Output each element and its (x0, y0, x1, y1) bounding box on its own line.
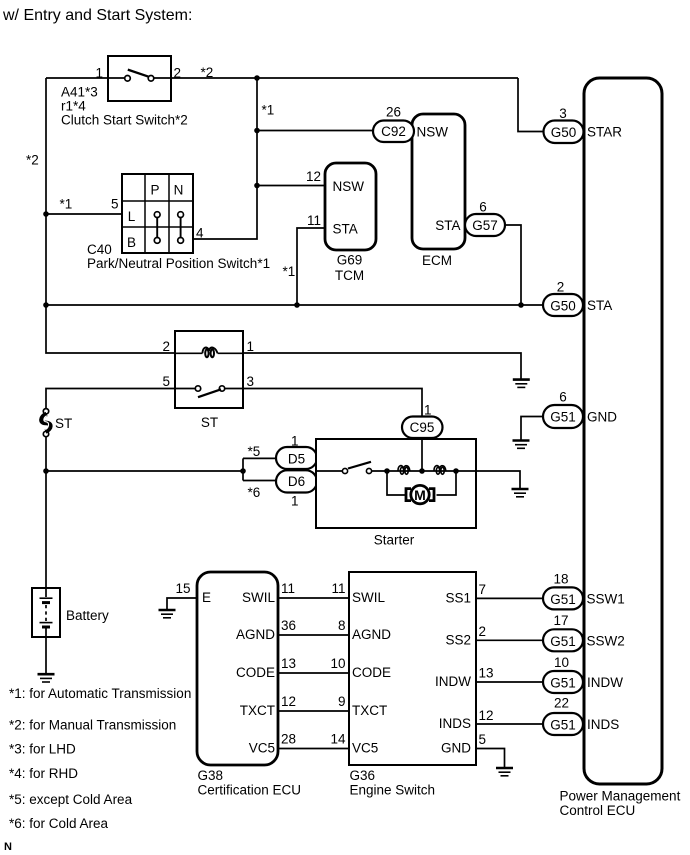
ground B (G51 GND) (513, 441, 530, 449)
ground F (battery) (38, 674, 55, 682)
wire: D5/D6 feed y471 (46, 470, 243, 472)
svg-text:STA: STA (587, 298, 612, 313)
svg-text:11: 11 (331, 581, 345, 596)
ECM box (412, 114, 465, 249)
wire: top bus y78 clutch switch to STAR drop (154, 77, 519, 79)
wire: G38-G36 row CODE (278, 672, 349, 674)
svg-text:Engine Switch: Engine Switch (350, 783, 436, 798)
svg-text:22: 22 (554, 696, 569, 711)
connector D5 oval (276, 447, 317, 469)
wire: relay pin3 to C95 (243, 389, 422, 418)
clutch switch lever (128, 70, 149, 77)
wire: STAR drop x518 (518, 78, 544, 132)
svg-text:C95: C95 (410, 420, 435, 435)
connector G50 STA oval (543, 294, 583, 316)
svg-text:INDS: INDS (587, 717, 619, 732)
svg-text:*5: *5 (248, 444, 261, 459)
wire: left vertical x46 down to relay coil pin2 (46, 78, 175, 353)
svg-text:15: 15 (175, 581, 190, 596)
junction dot (521,305) (518, 302, 524, 308)
svg-text:*6: *6 (248, 485, 261, 500)
wire: G51 GND row to ground B (521, 417, 543, 441)
motor left bracket (406, 489, 411, 501)
junction dot (243,471) (240, 468, 246, 474)
svg-text:L: L (128, 209, 136, 224)
wire: top bus y78 left of clutch switch (46, 77, 125, 79)
svg-text:26: 26 (386, 105, 401, 120)
svg-text:4: 4 (196, 226, 204, 241)
connector G57 oval (465, 214, 505, 236)
connector C95 oval (402, 417, 443, 439)
svg-text:Clutch Start Switch*2: Clutch Start Switch*2 (61, 113, 188, 128)
connector G51 SSW2 oval (543, 629, 583, 651)
svg-text:*1: *1 (60, 197, 73, 212)
svg-text:*6: for Cold Area: *6: for Cold Area (9, 816, 109, 831)
svg-text:AGND: AGND (236, 627, 275, 642)
junction dot (257,185) (254, 183, 260, 189)
svg-text:11: 11 (307, 213, 321, 228)
svg-text:13: 13 (281, 656, 296, 671)
wire: branch y214 to C40 pin5 (46, 213, 122, 215)
svg-text:3: 3 (559, 106, 567, 121)
wire: G36 INDS to G51 (476, 723, 543, 725)
wire: G38-G36 row AGND (278, 634, 349, 636)
svg-text:E: E (202, 590, 211, 605)
svg-text:*5: except Cold Area: *5: except Cold Area (9, 792, 133, 807)
junction dot (456,471) (453, 468, 459, 474)
junction dot (46,214) (43, 211, 49, 217)
wire: G38-G36 row TXCT (278, 710, 349, 712)
wire: G36 INDW to G51 (476, 681, 543, 683)
svg-text:5: 5 (111, 197, 119, 212)
svg-text:INDW: INDW (435, 674, 471, 689)
svg-text:INDW: INDW (587, 675, 623, 690)
svg-text:*4: for RHD: *4: for RHD (9, 766, 78, 781)
wire: G36 GND pin to ground D (476, 749, 505, 768)
motor M (411, 485, 429, 503)
C40 grid lines (122, 174, 193, 253)
svg-text:G51: G51 (550, 592, 576, 607)
svg-text:G51: G51 (550, 676, 576, 691)
svg-text:1: 1 (424, 403, 432, 418)
svg-text:G51: G51 (550, 718, 576, 733)
wire: y130.5 to C92 (257, 130, 373, 132)
svg-text:Power Management: Power Management (560, 789, 681, 804)
svg-text:13: 13 (479, 666, 494, 681)
junction dot (46,305) (43, 302, 49, 308)
svg-text:12: 12 (306, 169, 321, 184)
svg-text:SWIL: SWIL (242, 590, 275, 605)
starter coil 2 (434, 466, 446, 475)
wire: G57 to STA bus (505, 225, 521, 305)
svg-text:ST: ST (201, 415, 218, 430)
clutch start switch A41 box (108, 56, 171, 101)
junction dot (46,471) (43, 468, 49, 474)
junction dot (387,471) (384, 468, 390, 474)
svg-text:r1*4: r1*4 (61, 99, 86, 114)
battery box (32, 588, 60, 637)
svg-text:G50: G50 (550, 299, 576, 314)
svg-text:G38: G38 (198, 768, 224, 783)
battery internals (40, 588, 53, 637)
svg-text:3: 3 (247, 374, 255, 389)
svg-text:1: 1 (95, 66, 103, 81)
ST relay box (175, 331, 243, 408)
svg-text:P: P (150, 183, 159, 198)
svg-text:M: M (414, 487, 426, 503)
svg-text:2: 2 (162, 339, 170, 354)
wire: fuse to battery (45, 437, 47, 588)
ST relay coil (175, 347, 243, 357)
svg-text:Control ECU: Control ECU (560, 803, 636, 818)
svg-text:SWIL: SWIL (352, 590, 385, 605)
C40 park/neutral position switch box (122, 174, 193, 253)
svg-text:*2: *2 (26, 153, 39, 168)
wire: G38-G36 row SWIL (278, 597, 349, 599)
svg-text:SSW2: SSW2 (587, 633, 625, 648)
svg-text:1: 1 (247, 339, 255, 354)
svg-text:Certification ECU: Certification ECU (198, 783, 302, 798)
svg-text:B: B (127, 235, 136, 250)
ST relay switch circles (195, 386, 200, 391)
wire: D5/D6 split verticals (242, 458, 244, 480)
junction dot (297,305) (294, 302, 300, 308)
svg-text:11: 11 (281, 581, 295, 596)
clutch switch contact circles (125, 76, 131, 82)
wire: vertical x257 to C40 pin4 (193, 78, 257, 239)
wire: G38-G36 row VC5 (278, 748, 349, 750)
svg-text:17: 17 (553, 613, 568, 628)
wire: motor branch left (387, 471, 406, 495)
svg-text:14: 14 (330, 732, 346, 747)
svg-text:10: 10 (330, 656, 345, 671)
svg-text:STA: STA (435, 218, 460, 233)
ground A (relay coil) (513, 380, 530, 388)
svg-text:G69: G69 (337, 253, 363, 268)
svg-text:*2: for Manual Transmission: *2: for Manual Transmission (9, 718, 176, 733)
svg-text:SSW1: SSW1 (587, 591, 625, 606)
svg-text:*1: *1 (262, 103, 275, 118)
connector G51 SSW1 oval (543, 587, 583, 609)
motor right bracket (429, 489, 434, 501)
wire: starter out to ground C (476, 471, 520, 488)
svg-text:CODE: CODE (352, 665, 391, 680)
svg-text:C40: C40 (87, 242, 112, 257)
wire: G36 SS2 to G51 (476, 639, 543, 641)
C40 contact circles and bars (154, 212, 183, 244)
svg-text:A41*3: A41*3 (61, 85, 98, 100)
svg-text:Battery: Battery (66, 608, 109, 623)
ground C (starter out) (512, 489, 529, 497)
svg-text:ECM: ECM (422, 253, 452, 268)
svg-text:SS1: SS1 (445, 590, 471, 605)
svg-text:Starter: Starter (374, 533, 415, 548)
svg-text:*2: *2 (201, 65, 214, 80)
svg-text:w/ Entry and Start System:: w/ Entry and Start System: (2, 7, 192, 24)
G38 certification ECU box (197, 572, 278, 765)
svg-text:AGND: AGND (352, 627, 391, 642)
svg-text:2: 2 (479, 624, 487, 639)
G36 engine switch box (349, 572, 476, 765)
junction dot (257,130) (254, 128, 260, 134)
svg-text:TXCT: TXCT (240, 703, 275, 718)
svg-text:SS2: SS2 (445, 632, 471, 647)
svg-text:6: 6 (479, 200, 487, 215)
svg-text:N: N (174, 183, 184, 198)
junction dot (257,78) (254, 75, 260, 81)
wire: G38 E pin to ground E (167, 598, 197, 609)
connector G51 INDS oval (543, 713, 583, 735)
wire: y185 to TCM pin12 (257, 185, 325, 187)
connector D6 oval (276, 470, 317, 492)
connector G51 INDW oval (543, 671, 583, 693)
wire: TCM pin11 down to STA bus (297, 228, 325, 305)
svg-text:N: N (4, 841, 12, 853)
svg-text:NSW: NSW (333, 179, 365, 194)
wire: C95 into starter (421, 437, 423, 471)
fuse ST body (41, 414, 50, 432)
junction dot (422,471) (419, 468, 425, 474)
ST relay switch wire stubs (175, 388, 195, 390)
svg-text:G36: G36 (350, 768, 376, 783)
starter switch circles (342, 468, 347, 473)
svg-text:12: 12 (479, 708, 494, 723)
svg-text:28: 28 (281, 732, 296, 747)
svg-text:C92: C92 (381, 124, 406, 139)
svg-text:Park/Neutral Position Switch*1: Park/Neutral Position Switch*1 (87, 256, 270, 271)
connector G50 STAR oval (544, 121, 584, 144)
svg-text:STAR: STAR (587, 125, 622, 140)
connector G51 GND oval (543, 405, 583, 428)
starter box (316, 439, 476, 528)
wire: G36 SS1 to G51 (476, 597, 543, 599)
svg-text:INDS: INDS (439, 716, 471, 731)
svg-text:1: 1 (291, 434, 299, 449)
svg-text:*1: for Automatic Transmission: *1: for Automatic Transmission (9, 686, 191, 701)
power management control ECU box (584, 78, 662, 784)
svg-text:TCM: TCM (335, 268, 364, 283)
svg-text:5: 5 (162, 374, 170, 389)
svg-text:36: 36 (281, 618, 296, 633)
wire: stub to D6 (243, 480, 276, 482)
clutch switch interior wire stubs (108, 77, 125, 79)
svg-text:VC5: VC5 (249, 741, 275, 756)
wire: battery to ground (45, 637, 47, 673)
svg-text:GND: GND (441, 741, 471, 756)
ST relay switch lever (198, 389, 221, 397)
ground E (G38) (159, 610, 176, 618)
svg-text:2: 2 (174, 66, 182, 81)
starter switch lever (348, 462, 371, 469)
svg-text:ST: ST (55, 416, 72, 431)
wire: relay pin5 to left vertical and down to fuse (46, 389, 175, 409)
svg-text:STA: STA (333, 222, 358, 237)
svg-text:12: 12 (281, 694, 296, 709)
svg-text:GND: GND (587, 410, 617, 425)
wire: stub to D5 (243, 457, 276, 459)
svg-text:TXCT: TXCT (352, 703, 387, 718)
wire: STA bus y305 (46, 304, 543, 306)
svg-text:2: 2 (557, 280, 565, 295)
svg-text:D5: D5 (288, 452, 305, 467)
svg-text:G50: G50 (551, 125, 577, 140)
svg-text:18: 18 (553, 572, 568, 587)
connector C92 oval (373, 121, 414, 143)
svg-text:5: 5 (479, 732, 487, 747)
wire: starter internal bus (316, 470, 342, 472)
starter coil 1 (398, 466, 410, 475)
TCM G69 box (325, 163, 376, 250)
svg-text:VC5: VC5 (352, 741, 378, 756)
svg-text:G51: G51 (550, 634, 576, 649)
starter interior wires redraw (317, 438, 475, 495)
svg-text:G51: G51 (550, 410, 576, 425)
svg-text:D6: D6 (288, 474, 305, 489)
svg-text:1: 1 (291, 494, 299, 509)
wire: motor branch right (437, 471, 457, 495)
svg-text:7: 7 (479, 582, 487, 597)
svg-text:G57: G57 (472, 218, 498, 233)
svg-text:CODE: CODE (236, 665, 275, 680)
svg-text:10: 10 (554, 655, 569, 670)
svg-text:9: 9 (338, 694, 346, 709)
svg-text:NSW: NSW (417, 125, 449, 140)
svg-text:*3: for LHD: *3: for LHD (9, 742, 76, 757)
svg-text:8: 8 (338, 618, 346, 633)
svg-text:6: 6 (559, 390, 567, 405)
ground D (G36 GND) (496, 768, 513, 776)
wire: relay coil pin1 to ground A (243, 353, 521, 379)
svg-text:*1: *1 (283, 264, 296, 279)
fuse ST circles (43, 409, 48, 414)
